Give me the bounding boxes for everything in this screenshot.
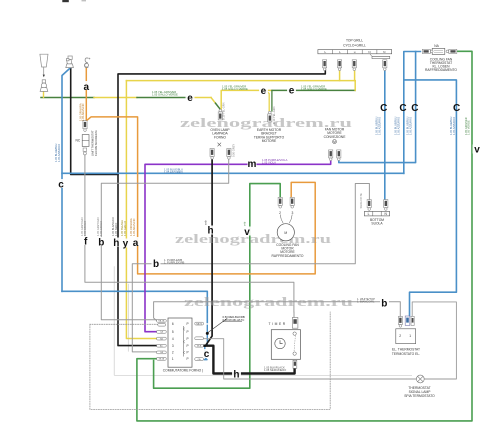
svg-text:e: e bbox=[289, 86, 295, 97]
svg-text:NA: NA bbox=[434, 44, 439, 48]
svg-text:3: 3 bbox=[172, 344, 174, 348]
svg-text:1.05 AZZURRO: 1.05 AZZURRO bbox=[377, 117, 381, 135]
wire blue long horizontal y=173.3 bbox=[62, 172, 404, 174]
svg-text:AC: AC bbox=[160, 344, 163, 347]
bottom heater terminals and strip bbox=[364, 200, 389, 217]
svg-text:P: P bbox=[187, 330, 189, 334]
svg-text:b: b bbox=[153, 259, 159, 270]
svg-text:CONVEZIONE: CONVEZIONE bbox=[324, 135, 347, 139]
oven lamp terminals bbox=[210, 149, 214, 160]
wire blue inside commutator right side bbox=[205, 325, 208, 359]
svg-text:P: P bbox=[187, 344, 189, 348]
wire blue main c: from plug down x=62 bbox=[62, 69, 70, 292]
svg-text:2: 2 bbox=[172, 351, 174, 355]
TOP GRILL connectors under cells bbox=[323, 60, 387, 71]
svg-text:zelenogradrem.ru: zelenogradrem.ru bbox=[175, 232, 331, 246]
svg-text:P: P bbox=[187, 351, 189, 355]
wire earth line2 green segment bbox=[272, 89, 355, 91]
wire grey b2: heater L terminal loop to commutator terminal 2 bbox=[132, 184, 369, 352]
svg-text:e: e bbox=[187, 93, 193, 104]
wire grey f: limit thermostat down, right y=282.3, down to timer top bbox=[85, 152, 294, 312]
wire blue from TOP GRILL N terminal to bottom heater bbox=[384, 69, 386, 200]
svg-text:B.10 YEL-GRN: B.10 YEL-GRN bbox=[272, 106, 276, 124]
svg-text:TIMER: TIMER bbox=[269, 322, 287, 326]
svg-text:1.05 GRIGIO: 1.05 GRIGIO bbox=[99, 221, 103, 236]
cut-off glyphs at very top edge bbox=[62, 0, 69, 2]
svg-text:LIMIT THERMOSTAT: LIMIT THERMOSTAT bbox=[91, 130, 95, 156]
svg-text:1.05 AZZURRO: 1.05 AZZURRO bbox=[452, 117, 456, 135]
svg-text:b: b bbox=[98, 237, 104, 248]
svg-text:1.05 AZZURRO: 1.05 AZZURRO bbox=[408, 117, 412, 135]
svg-text:v+b: v+b bbox=[243, 221, 247, 226]
svg-text:FORNO: FORNO bbox=[214, 135, 226, 139]
svg-text:v: v bbox=[244, 227, 250, 238]
wire earth drop to earth motor bracket (yellow+green pair) bbox=[266, 91, 269, 111]
svg-text:N: N bbox=[368, 50, 370, 54]
wire blue right riser x=403.8 bbox=[404, 52, 421, 174]
svg-text:m: m bbox=[248, 159, 257, 170]
svg-text:MOTORE: MOTORE bbox=[262, 139, 277, 143]
node junction at commutator h contact bbox=[204, 345, 206, 347]
svg-text:a: a bbox=[133, 238, 139, 249]
rotated wire code labels on vertical wires bbox=[54, 102, 470, 236]
jumper bracket under N-N bbox=[370, 54, 390, 57]
svg-text:SPIA TERMOSTATO: SPIA TERMOSTATO bbox=[404, 394, 435, 398]
svg-text:COMMUTATORE FORNO ): COMMUTATORE FORNO ) bbox=[163, 368, 203, 372]
svg-text:1.05 GIALLO-VERDE: 1.05 GIALLO-VERDE bbox=[301, 87, 327, 91]
wire leader line to switch dot bbox=[208, 319, 227, 333]
node switch dot on blue at commutator bbox=[206, 332, 209, 335]
svg-text:1.05 ARANCIO: 1.05 ARANCIO bbox=[132, 219, 136, 236]
svg-text:TERMOSTATO EL.: TERMOSTATO EL. bbox=[392, 352, 420, 356]
wire purple m: y=164.3 from x=145 to fan motor connection left pin bbox=[145, 161, 331, 332]
svg-text:1. PURPLE/GRB: 1. PURPLE/GRB bbox=[164, 261, 185, 265]
svg-text:1.05 AZZURRO: 1.05 AZZURRO bbox=[396, 117, 400, 135]
wire green branch commutator terminal1 to fan motor left terminal bbox=[154, 184, 281, 389]
svg-text:b: b bbox=[381, 298, 387, 309]
wire black branch from supply plug x=70.7 bbox=[71, 68, 118, 175]
wire grey signal lamp loop bbox=[203, 339, 416, 379]
svg-text:1.05 GIALLO: 1.05 GIALLO bbox=[123, 221, 127, 236]
supply connector (blue/black) top-left bbox=[66, 56, 74, 68]
svg-text:4: 4 bbox=[172, 337, 174, 341]
svg-text:a+b: a+b bbox=[203, 220, 207, 225]
svg-text:5: 5 bbox=[172, 330, 174, 334]
svg-text:1.05 GIALLO-VERDE: 1.05 GIALLO-VERDE bbox=[222, 87, 248, 91]
wire grey b: oven lamp right terminal to commutator terminal 6 bbox=[101, 157, 228, 320]
wire yellow drop from plug P1 bbox=[43, 91, 45, 98]
svg-text:1.05 NERO: 1.05 NERO bbox=[114, 223, 118, 236]
svg-text:C: C bbox=[453, 103, 460, 114]
wire dotted link: commutator aux to bottom dotted rail bbox=[90, 323, 158, 325]
halos behind bold letters bbox=[57, 81, 482, 379]
svg-text:SUOLA: SUOLA bbox=[371, 222, 383, 226]
svg-text:C: C bbox=[411, 103, 418, 114]
svg-text:P: P bbox=[187, 337, 189, 341]
svg-text:h: h bbox=[113, 238, 119, 249]
wire blue y=79.9 to x=456.4 down to EL thermostat bbox=[404, 80, 457, 316]
svg-text:C: C bbox=[399, 103, 406, 114]
svg-text:P: P bbox=[187, 357, 189, 361]
svg-text:a: a bbox=[84, 82, 90, 93]
svg-text:1.05 AZZURRO: 1.05 AZZURRO bbox=[164, 170, 183, 174]
svg-text:CYCLO+GRILL: CYCLO+GRILL bbox=[343, 44, 366, 48]
svg-text:e: e bbox=[261, 86, 267, 97]
switch component (orange) top-left bbox=[84, 58, 90, 68]
svg-text:38.1B: 38.1B bbox=[159, 359, 165, 361]
TOP GRILL terminal strip box bbox=[318, 50, 392, 59]
svg-text:P: P bbox=[187, 322, 189, 326]
svg-text:1.05 NERO/NERO: 1.05 NERO/NERO bbox=[264, 368, 286, 372]
EL thermostat bbox=[396, 316, 416, 344]
commutator right terminal boxes bbox=[195, 322, 204, 360]
wire black oven lamp h: x=212 down with diagonal into commutator contact bbox=[206, 157, 213, 346]
grouping box (faint) around commutator/timer/thermostat assembly bbox=[113, 266, 115, 375]
svg-text:KLIXON SICUREZZA: KLIXON SICUREZZA bbox=[94, 130, 98, 156]
cooling fan thermostat box bbox=[422, 48, 457, 54]
earth motor bracket connector bbox=[268, 111, 272, 122]
svg-text:y: y bbox=[123, 239, 129, 250]
wire yellow vertical y-wire x=126.4 to commutator terminal 4 bbox=[126, 81, 156, 339]
svg-text:1. BIANCO/RL: 1. BIANCO/RL bbox=[357, 300, 375, 304]
svg-text:TOP GRILL: TOP GRILL bbox=[346, 38, 363, 42]
wire grey b to EL thermostat terminal 2: y=301.8 bbox=[154, 302, 401, 321]
svg-text:3: 3 bbox=[291, 211, 293, 215]
svg-text:1.05 VERDE: 1.05 VERDE bbox=[467, 120, 471, 135]
svg-text:c: c bbox=[204, 349, 210, 360]
wire yellow from TOP GRILL terminal u down to earth line2 bbox=[354, 69, 357, 90]
commutator forno box bbox=[168, 318, 192, 367]
svg-text:1.05 VIOLA: 1.05 VIOLA bbox=[262, 161, 276, 165]
svg-text:RAFFREDDAMENTO: RAFFREDDAMENTO bbox=[272, 254, 304, 258]
svg-text:0.50 RO-BLU/LTC: 0.50 RO-BLU/LTC bbox=[223, 318, 245, 322]
wire yellow from TOP GRILL terminal L2 down bbox=[339, 69, 341, 80]
fan motor connection: circled M and connectors bbox=[329, 140, 341, 161]
wire code labels tiny bbox=[152, 84, 327, 96]
svg-text:SUOLO 8.TE: SUOLO 8.TE bbox=[359, 193, 363, 209]
wire yellow top horizontal y=80.6 bbox=[126, 80, 355, 82]
svg-text:6: 6 bbox=[172, 322, 174, 326]
svg-text:1: 1 bbox=[172, 357, 174, 361]
wire earth line2 y=90.3 yellow segment bbox=[221, 90, 263, 109]
wire earth diagonal to oven lamp earth connector bbox=[211, 98, 216, 104]
timer assembly bbox=[271, 318, 300, 369]
svg-text:1.05 ARANCIO: 1.05 ARANCIO bbox=[81, 104, 85, 121]
svg-text:NA.90: NA.90 bbox=[196, 322, 203, 325]
svg-text:C: C bbox=[380, 103, 387, 114]
wire black h thick: commutator contact out to timer bottom bbox=[203, 346, 294, 374]
plug P1 (earth probe) top-left bbox=[40, 54, 48, 91]
wire blue x=415.6 to fan motor connection bbox=[339, 52, 416, 163]
svg-text:M: M bbox=[284, 231, 287, 235]
limit thermostat bbox=[82, 121, 89, 155]
svg-text:2: 2 bbox=[279, 211, 281, 215]
svg-text:L: L bbox=[368, 212, 370, 216]
oven lamp earth connector bbox=[218, 109, 222, 120]
grouping box left edge (faint) bbox=[127, 284, 129, 352]
wire orange branch to x=137.6 down, bottom band y=273.9, up x=315.2 to fan right terminal bbox=[86, 117, 315, 274]
svg-text:zelenogradrem.ru: zelenogradrem.ru bbox=[184, 295, 353, 309]
commutator left terminal boxes bbox=[157, 319, 167, 360]
wire orange a: from switch comp down x=86.3 bbox=[85, 68, 87, 122]
svg-text:c: c bbox=[58, 180, 64, 191]
svg-text:h: h bbox=[207, 226, 213, 237]
cooling fan motor bbox=[277, 197, 294, 241]
wire blue to commutator: y=291.3 right then down bbox=[62, 291, 207, 322]
svg-text:0.50 GREY: 0.50 GREY bbox=[231, 144, 235, 157]
thermostat signal lamp bbox=[416, 375, 424, 383]
svg-text:1: 1 bbox=[409, 334, 411, 338]
svg-text:1.05 AZZURRO: 1.05 AZZURRO bbox=[57, 144, 61, 162]
svg-text:M: M bbox=[333, 140, 336, 144]
svg-text:N: N bbox=[383, 50, 385, 54]
svg-text:1.05 GIALLO-VERDE: 1.05 GIALLO-VERDE bbox=[152, 93, 178, 97]
wire black from TOP GRILL terminal L1: y=73.9 then down x=118 to commutator terminal 3 bbox=[118, 69, 325, 345]
svg-text:h: h bbox=[233, 370, 239, 381]
oven lamp symbol bbox=[218, 143, 222, 147]
svg-text:v: v bbox=[474, 144, 480, 155]
svg-text:NA.1A: NA.1A bbox=[158, 320, 165, 323]
wire green v: thermostat to right border down and bottom border bbox=[137, 51, 472, 421]
svg-text:NC: NC bbox=[76, 138, 81, 142]
svg-text:1.05 GRIGIO: 1.05 GRIGIO bbox=[83, 221, 87, 236]
svg-text:38.B: 38.B bbox=[197, 346, 202, 348]
svg-text:RAFFREDDAMENTO: RAFFREDDAMENTO bbox=[425, 68, 457, 72]
svg-text:2: 2 bbox=[399, 334, 401, 338]
wire earth line1 (green/yellow) y=97.5 bbox=[41, 97, 94, 99]
